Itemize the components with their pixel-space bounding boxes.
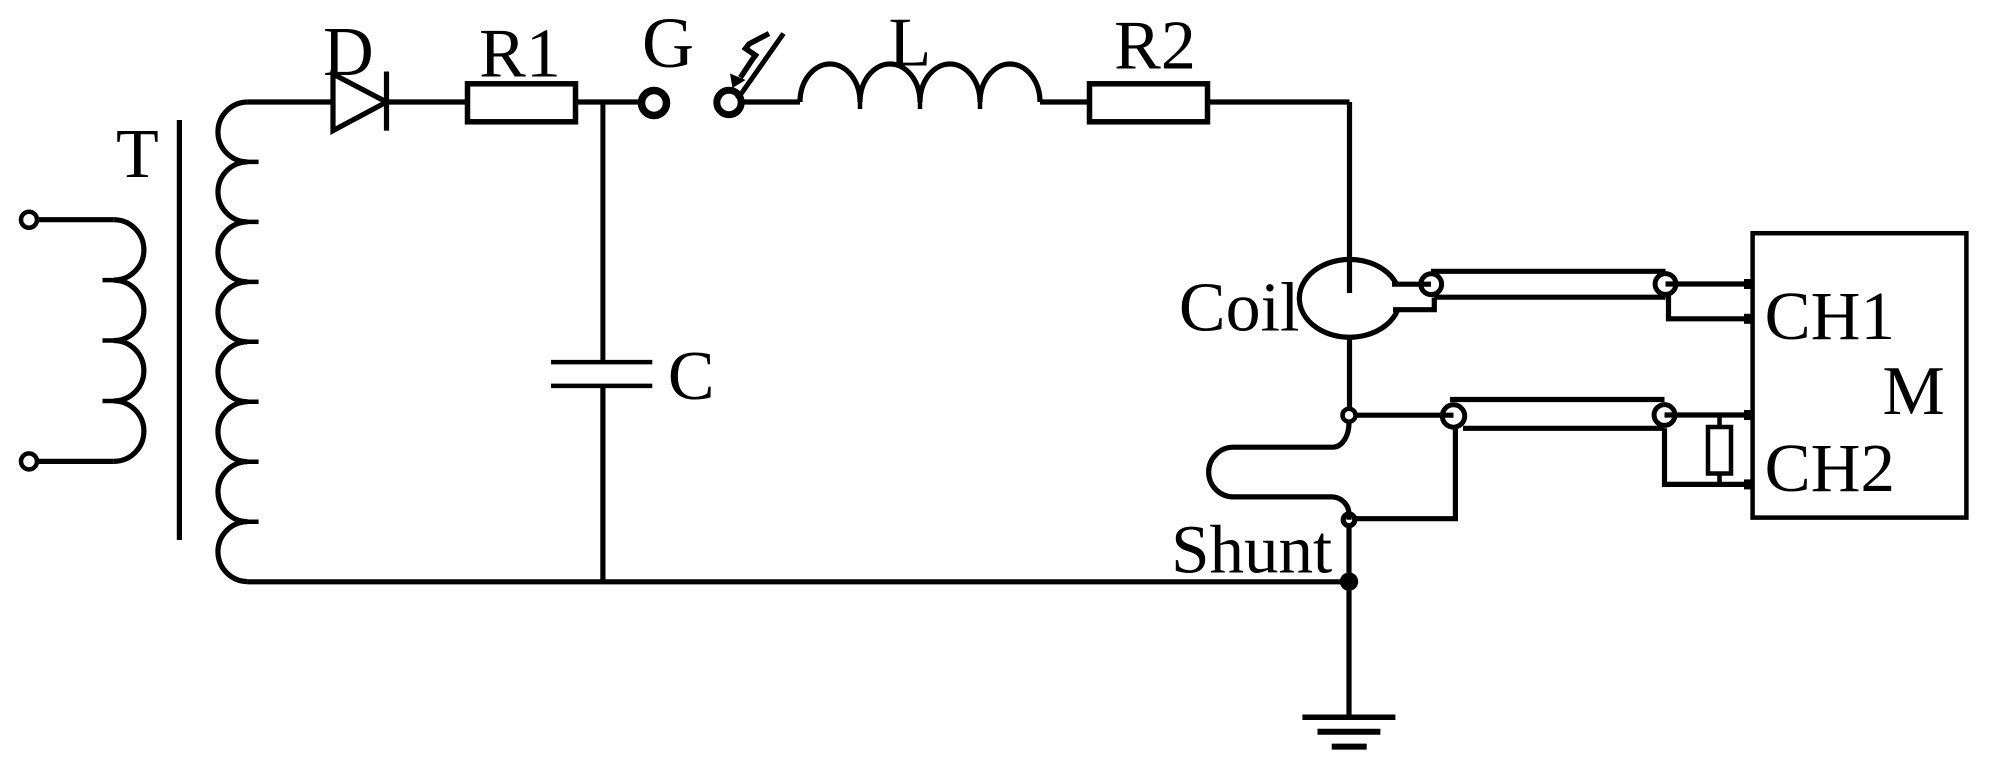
svg-text:R1: R1 xyxy=(479,16,561,93)
svg-text:Coil: Coil xyxy=(1179,270,1300,347)
svg-text:C: C xyxy=(668,338,715,415)
svg-text:M: M xyxy=(1882,353,1944,430)
svg-text:R2: R2 xyxy=(1114,8,1196,85)
svg-text:CH2: CH2 xyxy=(1765,430,1895,506)
svg-text:L: L xyxy=(889,5,932,82)
svg-text:Shunt: Shunt xyxy=(1171,511,1332,587)
svg-text:T: T xyxy=(116,116,159,193)
svg-text:CH1: CH1 xyxy=(1765,278,1895,354)
svg-text:G: G xyxy=(642,3,694,83)
svg-text:D: D xyxy=(323,14,374,91)
